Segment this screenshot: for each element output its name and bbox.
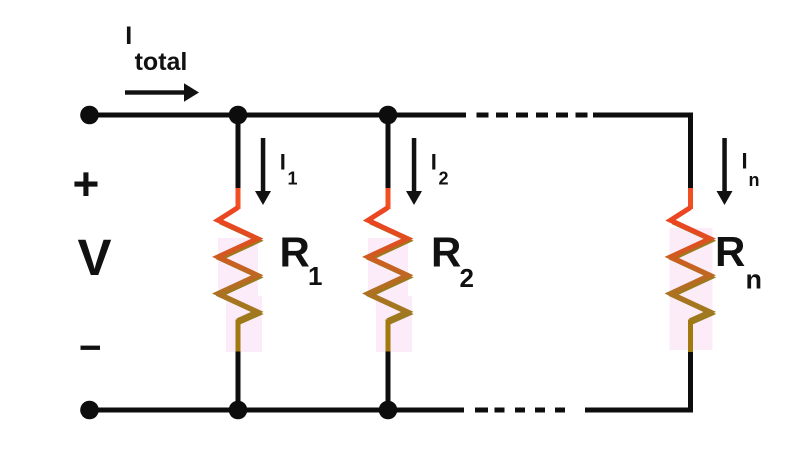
- svg-text:R: R: [715, 228, 745, 275]
- svg-text:n: n: [746, 265, 763, 295]
- svg-text:2: 2: [439, 169, 449, 189]
- svg-text:1: 1: [308, 261, 322, 291]
- svg-text:I: I: [125, 22, 132, 50]
- svg-text:I: I: [431, 150, 437, 175]
- svg-text:1: 1: [288, 169, 298, 189]
- svg-text:R: R: [280, 228, 310, 275]
- svg-text:I: I: [280, 150, 286, 175]
- svg-text:n: n: [749, 170, 760, 190]
- svg-text:total: total: [135, 48, 188, 76]
- svg-text:V: V: [78, 229, 112, 286]
- svg-text:+: +: [73, 158, 100, 210]
- svg-text:2: 2: [460, 263, 474, 293]
- svg-text:I: I: [742, 149, 748, 174]
- svg-text:R: R: [431, 228, 461, 275]
